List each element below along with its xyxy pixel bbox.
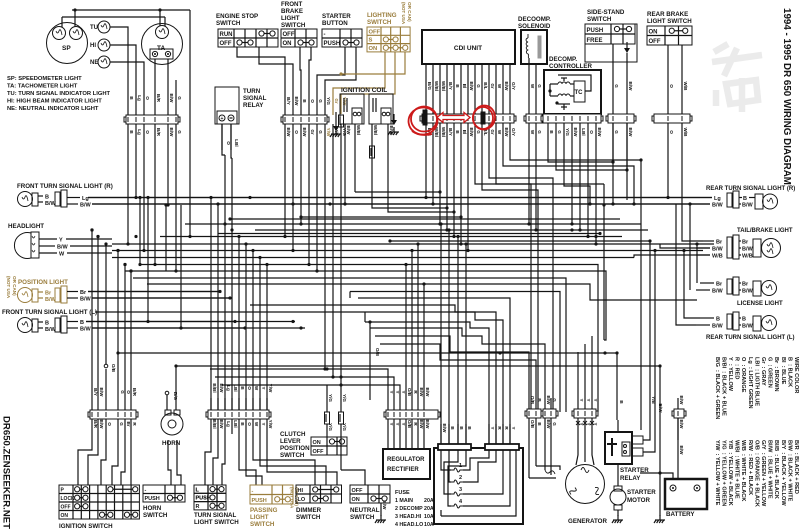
svg-text:O: O (589, 130, 594, 134)
svg-text:B/Bl: B/Bl (212, 383, 217, 392)
svg-text:B: B (716, 317, 720, 323)
svg-text:B/W: B/W (219, 384, 224, 394)
svg-text:B/W: B/W (80, 297, 92, 303)
svg-text:SWITCH: SWITCH (250, 521, 275, 528)
svg-text:B/W: B/W (742, 247, 754, 253)
svg-text:B/W: B/W (286, 128, 291, 138)
svg-text:B/W: B/W (628, 82, 633, 92)
svg-text:3: 3 (459, 487, 462, 493)
svg-text:Lg: Lg (82, 196, 89, 202)
svg-text:Y: Y (579, 398, 584, 401)
svg-text:W: W (530, 84, 535, 89)
svg-text:G/Y: G/Y (511, 128, 516, 136)
svg-text:W/Bl : WHITE + BLUE: W/Bl : WHITE + BLUE (734, 440, 740, 499)
svg-text:B: B (742, 317, 746, 323)
svg-text:W: W (497, 84, 502, 89)
svg-text:LIGHT: LIGHT (250, 514, 269, 521)
svg-text:Bl/B : BLUE + BLACK: Bl/B : BLUE + BLACK (773, 440, 779, 499)
svg-text:ON: ON (313, 440, 321, 446)
svg-text:B/W: B/W (573, 128, 578, 138)
svg-text:O/B : ORANGE + BLACK: O/B : ORANGE + BLACK (753, 440, 759, 507)
svg-text:Y: Y (261, 386, 266, 389)
svg-text:B/Y: B/Y (286, 97, 291, 105)
svg-text:B/Y: B/Y (448, 128, 453, 136)
svg-text:B/W: B/W (742, 289, 754, 295)
svg-text:G/Y: G/Y (511, 82, 516, 90)
svg-text:W/Bl: W/Bl (373, 125, 378, 135)
svg-text:20A: 20A (424, 498, 434, 504)
svg-text:G: G (177, 96, 182, 100)
svg-text:20A: 20A (424, 506, 434, 512)
svg-text:B/W: B/W (597, 128, 602, 138)
svg-text:Lg: Lg (226, 421, 231, 427)
svg-text:Br : BROWN: Br : BROWN (773, 357, 779, 392)
svg-text:O: O (145, 130, 150, 134)
svg-text:PUSH: PUSH (587, 28, 604, 34)
svg-text:(NOT USA: (NOT USA (401, 2, 406, 25)
svg-text:B/W: B/W (679, 420, 684, 430)
svg-text:W: W (254, 386, 259, 391)
svg-text:B/W: B/W (302, 128, 307, 138)
svg-text:W/B : WHITE + BLACK: W/B : WHITE + BLACK (740, 440, 746, 501)
svg-text:STARTER: STARTER (322, 13, 351, 20)
svg-text:B/W: B/W (169, 128, 174, 138)
svg-text:B/W: B/W (469, 128, 474, 138)
svg-text:LIGHT: LIGHT (281, 15, 300, 22)
svg-text:Br: Br (742, 282, 749, 288)
svg-text:SWITCH: SWITCH (587, 16, 612, 23)
svg-text:IGNITION COIL: IGNITION COIL (341, 87, 387, 94)
svg-text:O: O (247, 386, 252, 390)
svg-text:ON: ON (352, 497, 360, 503)
svg-text:B: B (743, 196, 747, 202)
svg-text:Y: Y (395, 390, 400, 393)
svg-text:Y/G: Y/G (326, 97, 331, 105)
svg-text:B/R: B/R (132, 388, 137, 397)
svg-text:Y: Y (261, 422, 266, 425)
svg-text:GENERATOR: GENERATOR (568, 518, 607, 525)
svg-text:ON: ON (649, 30, 658, 36)
svg-text:B/W: B/W (504, 82, 509, 92)
svg-text:B/W: B/W (294, 97, 299, 107)
svg-text:Y: Y (511, 426, 516, 429)
svg-text:B/R : BLACK + RED: B/R : BLACK + RED (793, 440, 799, 494)
svg-text:Br: Br (716, 240, 723, 246)
svg-text:O: O (247, 422, 252, 426)
svg-text:OFF: OFF (220, 41, 232, 47)
svg-text:B/W: B/W (742, 324, 754, 330)
svg-text:B/W: B/W (658, 404, 663, 414)
svg-text:OFF: OFF (283, 32, 295, 38)
svg-text:W/Bl: W/Bl (434, 81, 439, 91)
svg-text:BATTERY: BATTERY (666, 511, 695, 518)
svg-text:PASSING: PASSING (250, 507, 278, 514)
svg-text:Y/G : YELLOW + GREEN: Y/G : YELLOW + GREEN (720, 440, 726, 506)
svg-text:DECOMP.: DECOMP. (549, 56, 577, 63)
svg-text:Y/B : YELLOW + BLACK: Y/B : YELLOW + BLACK (727, 440, 733, 506)
svg-text:Y: Y (389, 390, 394, 393)
svg-text:W/Bl: W/Bl (356, 125, 361, 135)
svg-text:Lg: Lg (137, 129, 142, 135)
svg-text:B: B (45, 195, 49, 201)
svg-text:SIGNAL: SIGNAL (243, 95, 267, 102)
svg-text:DR650.ZENSEEKER.NET: DR650.ZENSEEKER.NET (1, 416, 12, 529)
svg-text:REAR TURN SIGNAL LIGHT (L): REAR TURN SIGNAL LIGHT (L) (706, 335, 795, 341)
svg-text:B: B (80, 320, 84, 326)
svg-text:B/W: B/W (712, 247, 724, 253)
svg-text:TURN: TURN (243, 88, 261, 95)
svg-text:RELAY: RELAY (243, 102, 264, 109)
svg-text:CDI UNIT: CDI UNIT (454, 45, 482, 52)
svg-text:W: W (59, 252, 65, 258)
svg-text:B/W: B/W (504, 128, 509, 138)
svg-text:Y: Y (586, 398, 591, 401)
svg-text:Gr: Gr (490, 129, 495, 135)
svg-text:NE: NEUTRAL INDICATOR LIGHT: NE: NEUTRAL INDICATOR LIGHT (7, 106, 99, 112)
svg-text:G/Y : GREEN + YELLOW: G/Y : GREEN + YELLOW (760, 440, 766, 507)
svg-text:TU: TU (90, 25, 98, 31)
svg-text:HI: HI (298, 488, 304, 494)
svg-text:O: O (310, 99, 315, 103)
svg-text:G: G (119, 422, 124, 426)
svg-text:Y/G: Y/G (342, 394, 347, 402)
svg-text:Bl : BLUE: Bl : BLUE (780, 357, 786, 385)
svg-text:B/W: B/W (425, 388, 430, 398)
svg-text:Gr: Gr (490, 83, 495, 89)
svg-text:LOCK: LOCK (61, 496, 76, 502)
svg-text:Y: Y (401, 422, 406, 425)
svg-text:SWITCH: SWITCH (296, 514, 321, 521)
svg-text:B/W: B/W (712, 289, 724, 295)
svg-text:+: + (221, 116, 224, 122)
svg-text:FREE: FREE (587, 38, 603, 44)
svg-text:OFF: OFF (369, 29, 381, 35)
svg-text:LIGHT SWITCH: LIGHT SWITCH (194, 519, 239, 526)
svg-text:TAIL/BRAKE LIGHT: TAIL/BRAKE LIGHT (737, 228, 793, 234)
svg-text:B/W: B/W (346, 126, 351, 136)
svg-text:B/R: B/R (156, 128, 161, 137)
svg-text:OR CAN): OR CAN) (12, 276, 17, 296)
svg-text:CLUTCH: CLUTCH (280, 431, 306, 438)
svg-text:B/L: B/L (483, 82, 488, 90)
svg-text:1 MAIN: 1 MAIN (395, 498, 413, 504)
svg-text:O/B: O/B (375, 348, 380, 357)
svg-text:G : GREEN: G : GREEN (767, 357, 773, 388)
svg-text:SWITCH: SWITCH (216, 20, 241, 27)
svg-text:BRAKE: BRAKE (281, 8, 303, 15)
svg-text:O/B: O/B (530, 420, 535, 429)
svg-text:ENGINE STOP: ENGINE STOP (216, 13, 258, 20)
svg-text:B/W: B/W (425, 420, 430, 430)
svg-text:Lg : LIGHT GREEN: Lg : LIGHT GREEN (747, 357, 753, 409)
svg-text:G: G (614, 130, 619, 134)
svg-text:PUSH: PUSH (196, 496, 211, 502)
svg-text:TU: TURN SIGNAL INDICATOR LIGH: TU: TURN SIGNAL INDICATOR LIGHT (7, 91, 111, 97)
svg-text:O/B: O/B (111, 364, 116, 373)
svg-text:W/Bl: W/Bl (441, 81, 446, 91)
svg-text:O/B: O/B (407, 420, 412, 429)
svg-text:(NOT USA: (NOT USA (290, 487, 295, 509)
svg-text:Y: Y (490, 426, 495, 429)
svg-text:Gr : GRAY: Gr : GRAY (760, 357, 766, 386)
svg-text:SIDE-STAND: SIDE-STAND (587, 9, 625, 16)
svg-text:OR CAN): OR CAN) (407, 2, 412, 22)
svg-text:B/W: B/W (679, 446, 684, 456)
svg-text:B/W: B/W (99, 388, 104, 398)
svg-text:Bl: Bl (462, 84, 467, 89)
svg-text:O/B: O/B (407, 388, 412, 397)
svg-text:B/W: B/W (546, 396, 551, 406)
svg-text:RUN: RUN (220, 32, 233, 38)
svg-text:B/Bl: B/Bl (212, 419, 217, 428)
svg-text:FRONT: FRONT (281, 1, 303, 8)
svg-text:TC: TC (575, 90, 584, 96)
svg-text:O: O (669, 130, 674, 134)
svg-text:PUSH: PUSH (324, 41, 341, 47)
svg-text:Y/W: Y/W (268, 420, 273, 429)
svg-text:O : ORANGE: O : ORANGE (740, 357, 746, 393)
svg-text:HI: HI (90, 43, 96, 49)
svg-text:O: O (145, 96, 150, 100)
svg-text:B/Y : BLACK + YELLOW: B/Y : BLACK + YELLOW (780, 440, 786, 506)
svg-text:2: 2 (459, 475, 462, 481)
svg-text:LBl: LBl (233, 420, 238, 427)
svg-text:G: G (614, 84, 619, 88)
svg-text:Y: Y (401, 390, 406, 393)
svg-text:LBl: LBl (581, 128, 586, 135)
svg-text:O: O (226, 141, 231, 145)
svg-text:B/G : BLACK + GREEN: B/G : BLACK + GREEN (714, 357, 720, 419)
svg-text:REGULATOR: REGULATOR (387, 457, 425, 463)
svg-text:W: W (530, 130, 535, 135)
svg-text:R/W : RED + BLACK: R/W : RED + BLACK (747, 440, 753, 495)
svg-text:-: - (324, 32, 326, 38)
svg-text:W/B: W/B (683, 128, 688, 138)
svg-text:W: W (497, 130, 502, 135)
svg-text:G: G (552, 422, 557, 426)
svg-text:B : BLACK: B : BLACK (786, 357, 792, 387)
svg-text:W/B: W/B (742, 254, 753, 260)
svg-text:LIGHT SWITCH: LIGHT SWITCH (647, 18, 692, 25)
svg-text:G: G (552, 398, 557, 402)
svg-text:Y : YELLOW: Y : YELLOW (727, 357, 733, 392)
svg-text:B/W: B/W (679, 396, 684, 406)
svg-text:OFF: OFF (313, 449, 325, 455)
svg-text:LEVER: LEVER (280, 438, 301, 445)
svg-text:NE: NE (90, 60, 98, 66)
svg-text:Y/W: Y/W (268, 384, 273, 393)
svg-text:W: W (254, 422, 259, 427)
svg-text:S: S (369, 38, 373, 44)
svg-text:-: - (145, 488, 147, 494)
svg-text:MOTOR: MOTOR (627, 497, 650, 504)
svg-text:Y/G: Y/G (342, 423, 347, 431)
svg-text:B/W: B/W (419, 388, 424, 398)
svg-text:TURN SIGNAL: TURN SIGNAL (194, 512, 236, 519)
svg-text:B/W: B/W (80, 203, 92, 209)
svg-text:W/Bl: W/Bl (441, 127, 446, 137)
svg-text:B/W: B/W (382, 501, 387, 511)
svg-text:W/B: W/B (712, 254, 723, 260)
svg-text:O: O (107, 422, 112, 426)
svg-text:G: G (476, 84, 481, 88)
svg-text:B/G: B/G (427, 82, 432, 91)
svg-text:Y: Y (59, 238, 63, 244)
svg-text:Y: Y (593, 398, 598, 401)
svg-text:RECTIFIER: RECTIFIER (387, 467, 419, 473)
svg-text:PUSH: PUSH (252, 498, 267, 504)
svg-text:B/W: B/W (546, 420, 551, 430)
svg-text:2 DECOMP: 2 DECOMP (395, 506, 423, 512)
svg-text:HI: HIGH BEAM INDICATOR LIGHT: HI: HIGH BEAM INDICATOR LIGHT (7, 99, 102, 105)
svg-text:B/W: B/W (628, 128, 633, 138)
svg-text:LO: LO (298, 497, 306, 503)
svg-text:SP: SPEEDOMETER LIGHT: SP: SPEEDOMETER LIGHT (7, 76, 82, 82)
svg-text:B/Bl : BLACK + BLUE: B/Bl : BLACK + BLUE (720, 357, 726, 416)
svg-text:PUSH: PUSH (145, 496, 160, 502)
svg-text:SWITCH: SWITCH (143, 512, 168, 519)
svg-text:HEADLIGHT: HEADLIGHT (8, 223, 44, 230)
svg-text:SWITCH: SWITCH (367, 19, 392, 26)
svg-text:Lg: Lg (714, 196, 721, 202)
svg-text:POSITION LIGHT: POSITION LIGHT (18, 279, 68, 286)
svg-text:HORN: HORN (143, 505, 162, 512)
svg-text:B/Y: B/Y (448, 82, 453, 90)
svg-text:WIRE COLOR: WIRE COLOR (793, 357, 799, 393)
svg-text:G: G (177, 130, 182, 134)
svg-text:G: G (318, 130, 323, 134)
svg-text:Br: Br (45, 291, 52, 297)
svg-text:Gr: Gr (310, 129, 315, 135)
svg-text:B/W: B/W (99, 420, 104, 430)
svg-text:B: B (45, 321, 49, 327)
svg-text:O: O (126, 390, 131, 394)
svg-text:G: G (537, 130, 542, 134)
svg-text:-: - (252, 489, 254, 495)
svg-text:LBl : LIGTH BLUE: LBl : LIGTH BLUE (753, 357, 759, 406)
svg-text:LBl: LBl (234, 139, 239, 146)
svg-text:SP: SP (62, 45, 71, 52)
svg-text:RELAY: RELAY (620, 475, 641, 482)
svg-text:DECOOMP.: DECOOMP. (518, 16, 551, 23)
svg-text:B/W: B/W (469, 82, 474, 92)
svg-text:FRONT TURN SIGNAL LIGHT (R): FRONT TURN SIGNAL LIGHT (R) (17, 183, 113, 190)
svg-text:Bl: Bl (462, 130, 467, 135)
svg-text:(NOT USA: (NOT USA (6, 276, 11, 299)
svg-text:Y/G: Y/G (565, 128, 570, 136)
svg-text:IGNITION SWITCH: IGNITION SWITCH (59, 523, 113, 530)
svg-text:B/W: B/W (442, 424, 447, 434)
svg-text:O: O (294, 130, 299, 134)
svg-text:OFF: OFF (352, 488, 364, 494)
svg-text:HORN: HORN (162, 440, 181, 447)
svg-text:CONTROLLER: CONTROLLER (549, 63, 592, 70)
svg-text:B/W : BLACK + WHITE: B/W : BLACK + WHITE (786, 440, 792, 502)
svg-text:4 HEAD.LO: 4 HEAD.LO (395, 522, 423, 528)
svg-text:B/W: B/W (57, 245, 69, 251)
svg-text:Lg: Lg (226, 385, 231, 391)
svg-text:Y: Y (389, 422, 394, 425)
svg-text:B/W: B/W (169, 94, 174, 104)
svg-text:POSITION: POSITION (280, 445, 310, 452)
svg-text:NEUTRAL: NEUTRAL (350, 507, 380, 514)
svg-text:G: G (537, 84, 542, 88)
svg-text:Br: Br (742, 240, 749, 246)
svg-text:Br: Br (80, 290, 87, 296)
svg-text:B/W: B/W (712, 324, 724, 330)
svg-text:B/Y: B/Y (93, 388, 98, 396)
svg-text:Y/G: Y/G (328, 394, 333, 402)
svg-text:3 HEAD.HI: 3 HEAD.HI (395, 514, 422, 520)
svg-text:SOLENOID: SOLENOID (518, 23, 551, 30)
svg-text:LIGHTING: LIGHTING (367, 12, 397, 19)
svg-text:SWITCH: SWITCH (281, 22, 306, 29)
svg-text:R: R (196, 504, 200, 510)
svg-text:Y/B: Y/B (651, 396, 656, 404)
svg-text:10A: 10A (424, 522, 434, 528)
svg-text:G: G (318, 99, 323, 103)
svg-text:REAR TURN SIGNAL LIGHT (R): REAR TURN SIGNAL LIGHT (R) (706, 186, 795, 192)
svg-text:B/G: B/G (173, 392, 178, 401)
svg-text:O/B: O/B (530, 396, 535, 405)
svg-text:1994 - 1995 DR 650 WIRING DIAG: 1994 - 1995 DR 650 WIRING DIAGRAM (781, 8, 792, 185)
svg-text:Y/G: Y/G (328, 423, 333, 431)
svg-text:SWITCH: SWITCH (280, 452, 305, 459)
svg-text:OFF: OFF (649, 39, 661, 45)
svg-text:ON: ON (61, 513, 69, 519)
svg-text:SWITCH: SWITCH (350, 514, 375, 521)
svg-text:REAR BRAKE: REAR BRAKE (647, 11, 688, 18)
svg-text:B/R: B/R (93, 420, 98, 429)
svg-text:G: G (120, 390, 125, 394)
svg-text:DIMMER: DIMMER (296, 507, 322, 514)
svg-text:ON: ON (283, 41, 292, 47)
svg-text:FUSE: FUSE (395, 490, 410, 496)
svg-text:G: G (476, 130, 481, 134)
svg-text:FRONT TURN SIGNAL LIGHT (L): FRONT TURN SIGNAL LIGHT (L) (2, 309, 97, 316)
svg-text:Br: Br (126, 421, 131, 426)
svg-text:OFF: OFF (61, 505, 71, 511)
svg-text:Y/W : YELLOW + WHITE: Y/W : YELLOW + WHITE (714, 440, 720, 506)
svg-text:ON: ON (369, 46, 378, 52)
svg-text:O: O (669, 84, 674, 88)
svg-text:B/R: B/R (156, 94, 161, 103)
svg-text:STARTER: STARTER (627, 489, 656, 496)
svg-text:B/W: B/W (419, 420, 424, 430)
svg-text:B/W: B/W (712, 203, 724, 209)
svg-text:R : RED: R : RED (734, 357, 740, 379)
svg-text:TA: TACHOMETER LIGHT: TA: TACHOMETER LIGHT (7, 84, 78, 90)
svg-text:Lg: Lg (137, 95, 142, 101)
svg-text:LBl: LBl (233, 384, 238, 391)
svg-text:Gr: Gr (334, 98, 339, 104)
svg-text:G: G (557, 130, 562, 134)
svg-text:B/W: B/W (80, 327, 92, 333)
svg-text:BUTTON: BUTTON (322, 20, 348, 27)
svg-text:10A: 10A (424, 514, 434, 520)
svg-text:Br: Br (716, 282, 723, 288)
svg-text:Y: Y (395, 422, 400, 425)
svg-text:LICENSE LIGHT: LICENSE LIGHT (737, 301, 783, 307)
svg-text:B/W: B/W (742, 203, 754, 209)
svg-text:W/B: W/B (683, 82, 688, 92)
svg-text:B/W: B/W (219, 420, 224, 430)
svg-text:Bl/W : BLUE + WHITE: Bl/W : BLUE + WHITE (767, 440, 773, 499)
